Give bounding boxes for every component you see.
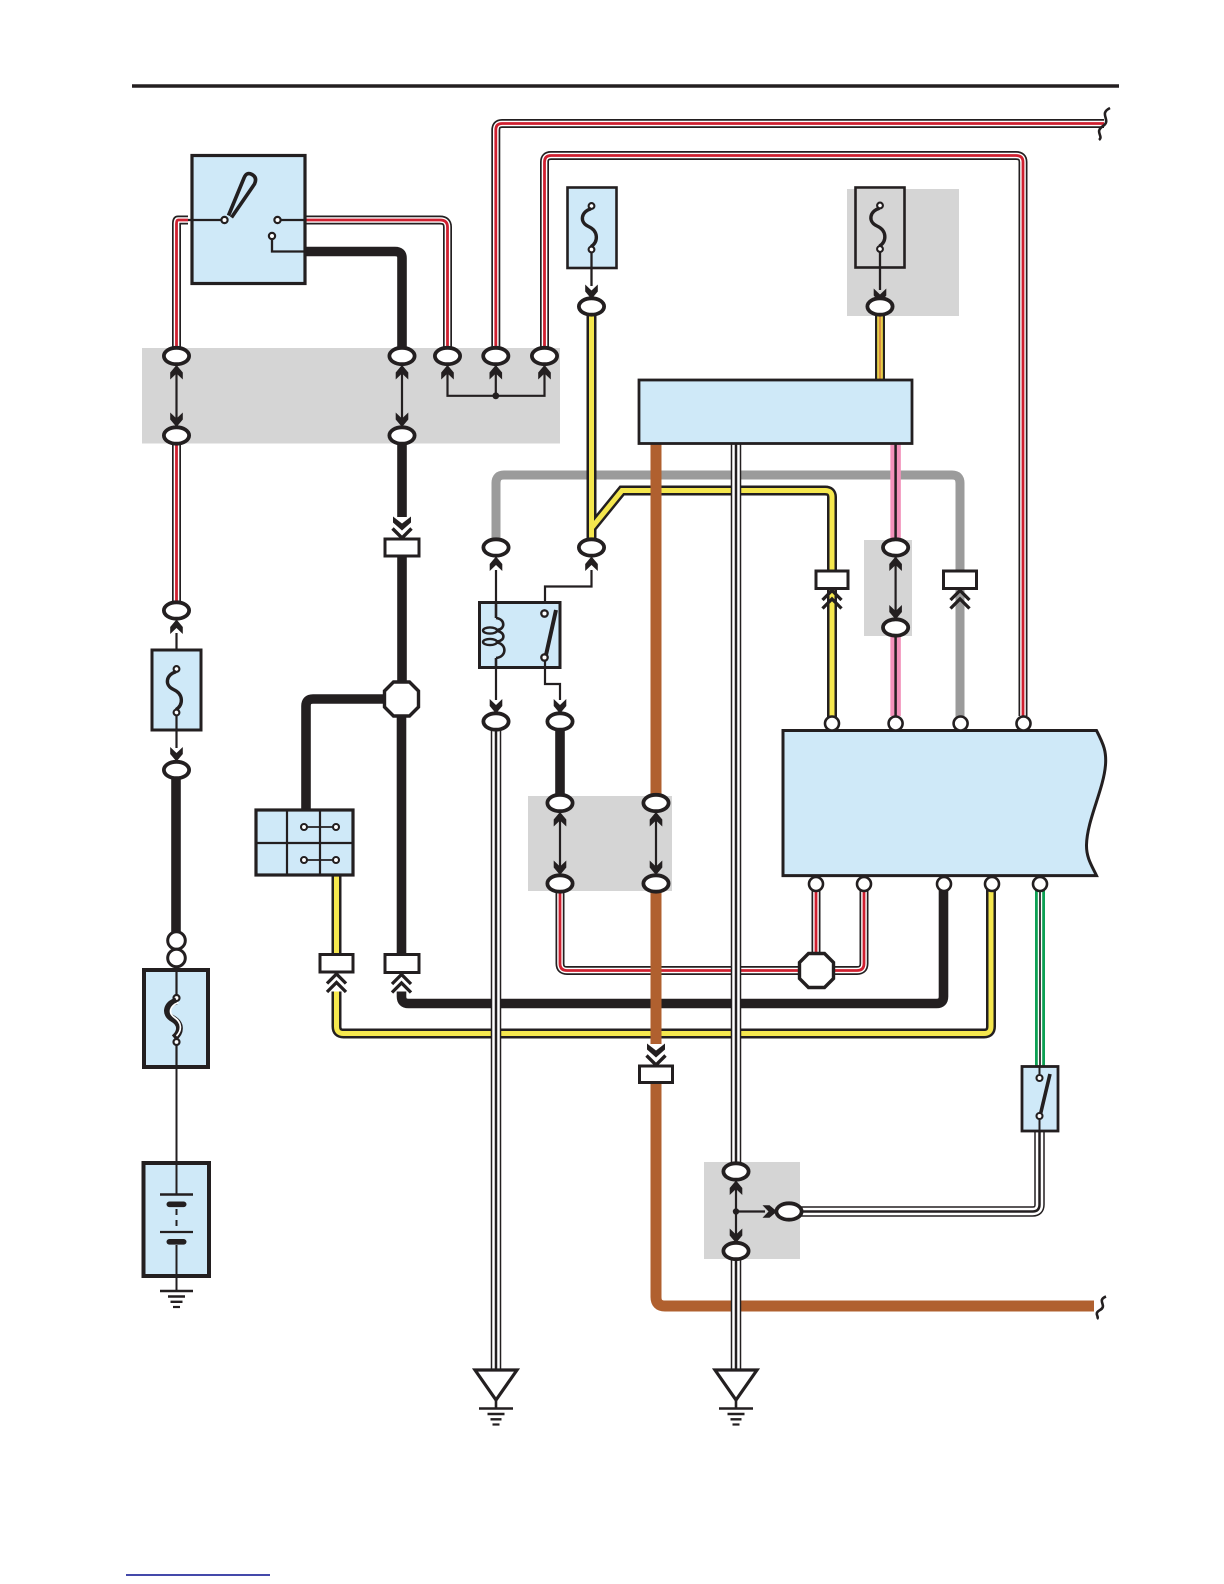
- fuse GAUGE block: [568, 188, 617, 269]
- wire: white-black from relay coil to ground: [491, 729, 502, 1369]
- junction octagon (black wires): [385, 682, 419, 716]
- bus wire joining trio: [448, 366, 545, 396]
- gray box connector pair band (black/brown wires): [528, 796, 672, 891]
- gray box ground junction band: [704, 1162, 800, 1259]
- continuation squiggle top right: [1099, 108, 1110, 140]
- gray band connector pair: black wire column: [547, 795, 572, 811]
- lead to battery: [176, 1067, 178, 1163]
- strip connectors trio with bus: [435, 348, 460, 364]
- wire: thick black fusible link lead: [171, 778, 181, 933]
- connector rect on yellow wire: [816, 571, 848, 589]
- wire: white-red from ignition switch AM terminal to strip: [177, 220, 189, 349]
- relay output leads: [495, 667, 497, 700]
- wire: white-red strip to fusible link box: [172, 443, 181, 603]
- connector rect on lower black wire: [385, 955, 419, 973]
- strip connectors column 2 (black): [389, 348, 414, 364]
- gray band connector pair: brown wire column: [643, 795, 668, 811]
- wire: yellow-orange from fuse AM2 to junction block: [875, 314, 885, 380]
- wire: brown from junction block through connectors to continuation: [656, 444, 1094, 1306]
- wire: thick black relay contact output: [555, 729, 565, 797]
- left column: oval above fuse box: [164, 602, 189, 618]
- ground junction band connectors: [723, 1163, 748, 1179]
- fuse GAUGE output lead: [590, 253, 592, 287]
- wire: white-red feed to page continuation (top): [496, 124, 1104, 350]
- connector oval on yellow wire to relay contact: [579, 539, 604, 555]
- wire: white-black from junction block to ground junction: [731, 444, 742, 1369]
- continuation squiggle bottom right (brown wire): [1097, 1297, 1106, 1320]
- battery block: [144, 1163, 210, 1276]
- ECU block (right, torn edge): [783, 731, 1106, 876]
- ignition switch block: [188, 156, 305, 284]
- junction octagon (white-red wires): [800, 954, 834, 988]
- ECU top pins: [825, 717, 839, 731]
- wire: white-red from ignition switch ACC to strip: [304, 220, 448, 349]
- wire: white-red feed to ECU pin 4: [545, 156, 1024, 717]
- connector rect on black wire (upper): [393, 517, 411, 531]
- fuse AM2 block: [856, 188, 905, 268]
- IG contact: [269, 233, 275, 239]
- wire: pink-black junction block to ECU pin 2: [890, 444, 901, 716]
- connector oval below fuse AM2: [867, 298, 892, 314]
- wire: white-red ECU lower pins to junction octagon: [560, 890, 864, 971]
- connector strip band (instrument panel wire / engine wire junction, gray): [142, 348, 560, 444]
- ECU bottom pins: [809, 877, 823, 891]
- wire: yellow from fuse GAUGE down and branch to ECU: [592, 314, 833, 717]
- wire: white-black branch to defogger switch: [800, 1131, 1040, 1212]
- connector rect on yellow key wire: [320, 955, 353, 973]
- junction block (center blue box): [639, 380, 912, 444]
- wire: thick black octagon down to connector: [397, 715, 407, 955]
- wire: thick black run to ECU ground pin: [402, 890, 944, 1004]
- strip connectors column 1 (white-red): [164, 348, 189, 364]
- bus junction dot: [492, 392, 499, 399]
- connector rect on gray wire: [944, 571, 977, 589]
- battery ground: [160, 1276, 193, 1307]
- wire: green-black ECU to defogger switch: [1035, 890, 1045, 1067]
- ACC contact: [274, 217, 280, 223]
- gray box around fuse AM2: [847, 189, 959, 316]
- key cylinder switch block: [256, 810, 353, 875]
- relay contact output lead: [545, 661, 560, 700]
- connector oval on gray wire to relay coil: [483, 539, 508, 555]
- fusible link block (main): [144, 970, 208, 1067]
- bullet connector circles above fusible link: [168, 932, 186, 950]
- ground symbol right (junction block): [715, 1370, 757, 1425]
- ground symbol left (relay circuit): [475, 1370, 517, 1425]
- page top border rule: [132, 84, 1119, 88]
- wire: thick black strip to connector: [397, 443, 407, 517]
- hyperlink underline bottom left: [126, 1574, 270, 1576]
- left fuse block: [152, 650, 201, 730]
- defogger switch block: [1022, 1067, 1058, 1132]
- fuse AM2 output lead: [879, 252, 881, 290]
- connector oval below fuse GAUGE: [579, 298, 604, 314]
- lever pivot contact: [221, 217, 227, 223]
- relay block (coil + contact): [480, 603, 561, 668]
- pink wire connector pair: [883, 539, 908, 555]
- wire: thick black connector to junction octagon: [397, 556, 407, 683]
- wire: yellow from key cylinder switch to ECU lower pin: [337, 875, 992, 1034]
- lever symbol: [229, 174, 256, 218]
- wire: thick black octagon branch to key cylinder: [306, 699, 385, 810]
- wire: gray from relay coil to ECU pin (shielded gray): [496, 475, 960, 717]
- contact: [541, 610, 547, 616]
- connector rect on brown wire: [647, 1044, 665, 1058]
- gray box on pink wire (connector band): [864, 540, 912, 636]
- coil: [495, 604, 498, 618]
- wire: thick black ignition switch IG to strip: [304, 252, 402, 350]
